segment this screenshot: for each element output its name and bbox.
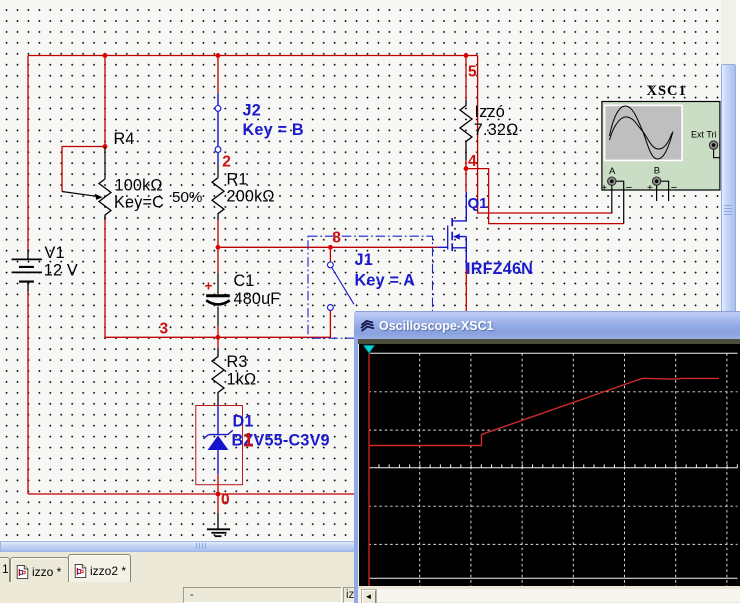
- transistor Q1 MOSFET: [438, 192, 467, 270]
- svg-text:Q1: Q1: [468, 195, 488, 212]
- switch J1 dashed selection box: [308, 236, 433, 338]
- svg-text:+: +: [647, 183, 653, 194]
- svg-text:−: −: [626, 182, 632, 194]
- status bar: [0, 583, 740, 603]
- potentiometer R4: [62, 147, 111, 220]
- scope cursor T1 handle: [363, 345, 374, 353]
- wire bottom ground rail node 0: [28, 493, 354, 495]
- instrument icon Ext Trig terminal: [709, 141, 719, 158]
- instrument icon channel B label: [654, 165, 660, 176]
- label Izzo: [475, 103, 506, 121]
- resistor R3: [212, 348, 224, 406]
- wire R1 bottom to node 8: [217, 220, 219, 248]
- label Q1: [468, 195, 488, 212]
- svg-text:V1: V1: [45, 244, 65, 262]
- instrument icon channel B terminal: [652, 177, 660, 185]
- instrument icon channel A polarity marks: [601, 182, 632, 194]
- wire top power rail node 5: [28, 55, 478, 57]
- node dot node 4: [464, 166, 469, 171]
- svg-text:IRFZ46N: IRFZ46N: [466, 260, 533, 278]
- node dot node 8 left: [216, 245, 221, 250]
- svg-text:4: 4: [468, 153, 477, 170]
- svg-text:1kΩ: 1kΩ: [227, 370, 257, 388]
- svg-text:1: 1: [243, 431, 254, 452]
- label D1: [233, 413, 254, 431]
- wire R3 top lead: [217, 337, 219, 348]
- switch J2: [215, 93, 221, 178]
- label J1: [355, 251, 373, 269]
- wire Izzo top lead: [465, 56, 467, 101]
- wire ground stem upper: [217, 494, 219, 513]
- label C1 value: [234, 290, 281, 308]
- label node 8: [332, 229, 341, 246]
- instrument icon channel A label: [609, 166, 616, 177]
- label R1 value: [227, 188, 275, 206]
- wire J2 top lead: [217, 56, 219, 94]
- instrument icon XSC1 body: [602, 102, 720, 191]
- node dot node 5: [464, 53, 469, 58]
- scope graticule dashed grid: [369, 353, 738, 586]
- zener diode D1: [203, 406, 232, 475]
- oscilloscope window XSC1: [354, 311, 740, 603]
- node dot rail R4: [103, 53, 108, 58]
- resistor Izzo: [460, 100, 472, 160]
- right white strip: [736, 0, 740, 603]
- wire scope B+ black stub: [656, 186, 658, 201]
- label Q1 part number: [466, 260, 533, 278]
- wire Q1 drain lead upper: [465, 169, 467, 192]
- wire node 4 to scope A- terminal: [466, 169, 624, 224]
- wire R4 top lead: [104, 56, 106, 148]
- sheet tab bar: [0, 552, 740, 583]
- svg-text:5: 5: [468, 63, 477, 80]
- capacitor C1: [206, 273, 230, 326]
- label 12 V: [44, 261, 78, 279]
- svg-text:+: +: [601, 183, 607, 194]
- label R4 value 100k: [115, 177, 163, 195]
- svg-text:3: 3: [160, 321, 169, 338]
- wire scope A+ black stub: [611, 186, 613, 214]
- node dot rail J2: [216, 53, 221, 58]
- wire J1 bottom stub: [329, 311, 331, 338]
- switch J1: [328, 262, 355, 310]
- label node 0: [221, 492, 230, 509]
- instrument icon channel A terminal: [608, 177, 616, 185]
- node dot node 0: [216, 492, 221, 497]
- svg-text:A: A: [609, 166, 616, 177]
- svg-text:7.32Ω: 7.32Ω: [474, 121, 519, 139]
- svg-text:R4: R4: [114, 130, 135, 148]
- svg-text:−: −: [671, 182, 677, 194]
- node dot node 3: [216, 335, 221, 340]
- label R4: [114, 130, 135, 148]
- svg-text:2: 2: [222, 154, 231, 171]
- svg-text:Ext Tri: Ext Tri: [691, 129, 717, 139]
- svg-text:J2: J2: [243, 102, 261, 120]
- svg-text:D1: D1: [233, 413, 254, 431]
- label node 5: [468, 63, 477, 80]
- scope graticule solid axes: [369, 353, 738, 578]
- label J2: [243, 102, 261, 120]
- instrument icon Ext Trig label: [691, 129, 717, 139]
- svg-text:XSC1: XSC1: [647, 83, 687, 99]
- wire node 5 to scope A+ terminal: [478, 56, 613, 214]
- svg-text:0: 0: [221, 492, 230, 509]
- label node 4: [468, 153, 477, 170]
- scope trace channel A: [369, 378, 719, 445]
- svg-text:Key = B: Key = B: [243, 121, 304, 139]
- wire node 3 to J1 bottom: [218, 336, 330, 338]
- svg-text:12 V: 12 V: [44, 261, 78, 279]
- label R1: [227, 171, 248, 189]
- svg-text:50%: 50%: [172, 189, 202, 206]
- node dot R4 wiper: [103, 144, 108, 149]
- label XSC1: [647, 83, 687, 99]
- wire D1 bottom to node 0: [217, 474, 219, 494]
- label D1 pin 1: [243, 431, 254, 452]
- svg-text:C1: C1: [234, 272, 255, 290]
- svg-text:Key = A: Key = A: [355, 272, 416, 290]
- label J2 Key = B: [243, 121, 304, 139]
- ground: [207, 513, 230, 536]
- svg-text:8: 8: [332, 229, 341, 246]
- wire scope B- black hook: [661, 181, 669, 201]
- diode D1 selection box: [196, 406, 243, 485]
- resistor R1: [212, 178, 224, 220]
- node dot node 8 J1: [328, 245, 333, 250]
- vertical scrollbar: [721, 0, 736, 540]
- wire scope A- black hook: [616, 181, 624, 223]
- wire left rail from V1: [27, 56, 29, 495]
- wire R4 wiper loop: [62, 147, 105, 192]
- instrument icon screen: [605, 105, 683, 160]
- label D1 part number: [232, 432, 330, 450]
- wire C1 bottom to node 3: [217, 326, 219, 337]
- wire J1 top stub: [329, 247, 331, 262]
- label J1 Key = A: [355, 272, 416, 290]
- svg-text:480uF: 480uF: [234, 290, 281, 308]
- scope cursor T1 line: [368, 352, 370, 586]
- svg-text:R3: R3: [227, 353, 248, 371]
- label C1 plus: [205, 279, 213, 294]
- label C1: [234, 272, 255, 290]
- label node 2: [222, 154, 231, 171]
- svg-text:200kΩ: 200kΩ: [227, 188, 275, 206]
- horizontal scrollbar: [0, 540, 721, 552]
- label R4 Key=C: [114, 194, 164, 212]
- label V1: [45, 244, 65, 262]
- svg-text:B: B: [654, 165, 660, 176]
- label 50 percent: [172, 189, 202, 206]
- label Izzo value: [474, 121, 519, 139]
- wire Izzo bottom node 4: [465, 160, 467, 169]
- battery V1: [12, 250, 42, 292]
- svg-text:100kΩ: 100kΩ: [115, 177, 163, 195]
- wire Q1 source lead lower: [465, 269, 467, 311]
- wire C1 top lead: [217, 247, 219, 273]
- svg-text:J1: J1: [355, 251, 373, 269]
- wire R4 bottom to node 3: [105, 219, 218, 337]
- label node 3: [160, 321, 169, 338]
- svg-text:R1: R1: [227, 171, 248, 189]
- label R3 value: [227, 370, 257, 388]
- svg-text:Izzó: Izzó: [475, 103, 506, 121]
- wire node 8 to Q1 gate: [218, 246, 438, 248]
- instrument icon channel B polarity marks: [647, 182, 677, 194]
- svg-text:Key=C: Key=C: [114, 194, 164, 212]
- svg-text:+: +: [205, 279, 213, 294]
- label R3: [227, 353, 248, 371]
